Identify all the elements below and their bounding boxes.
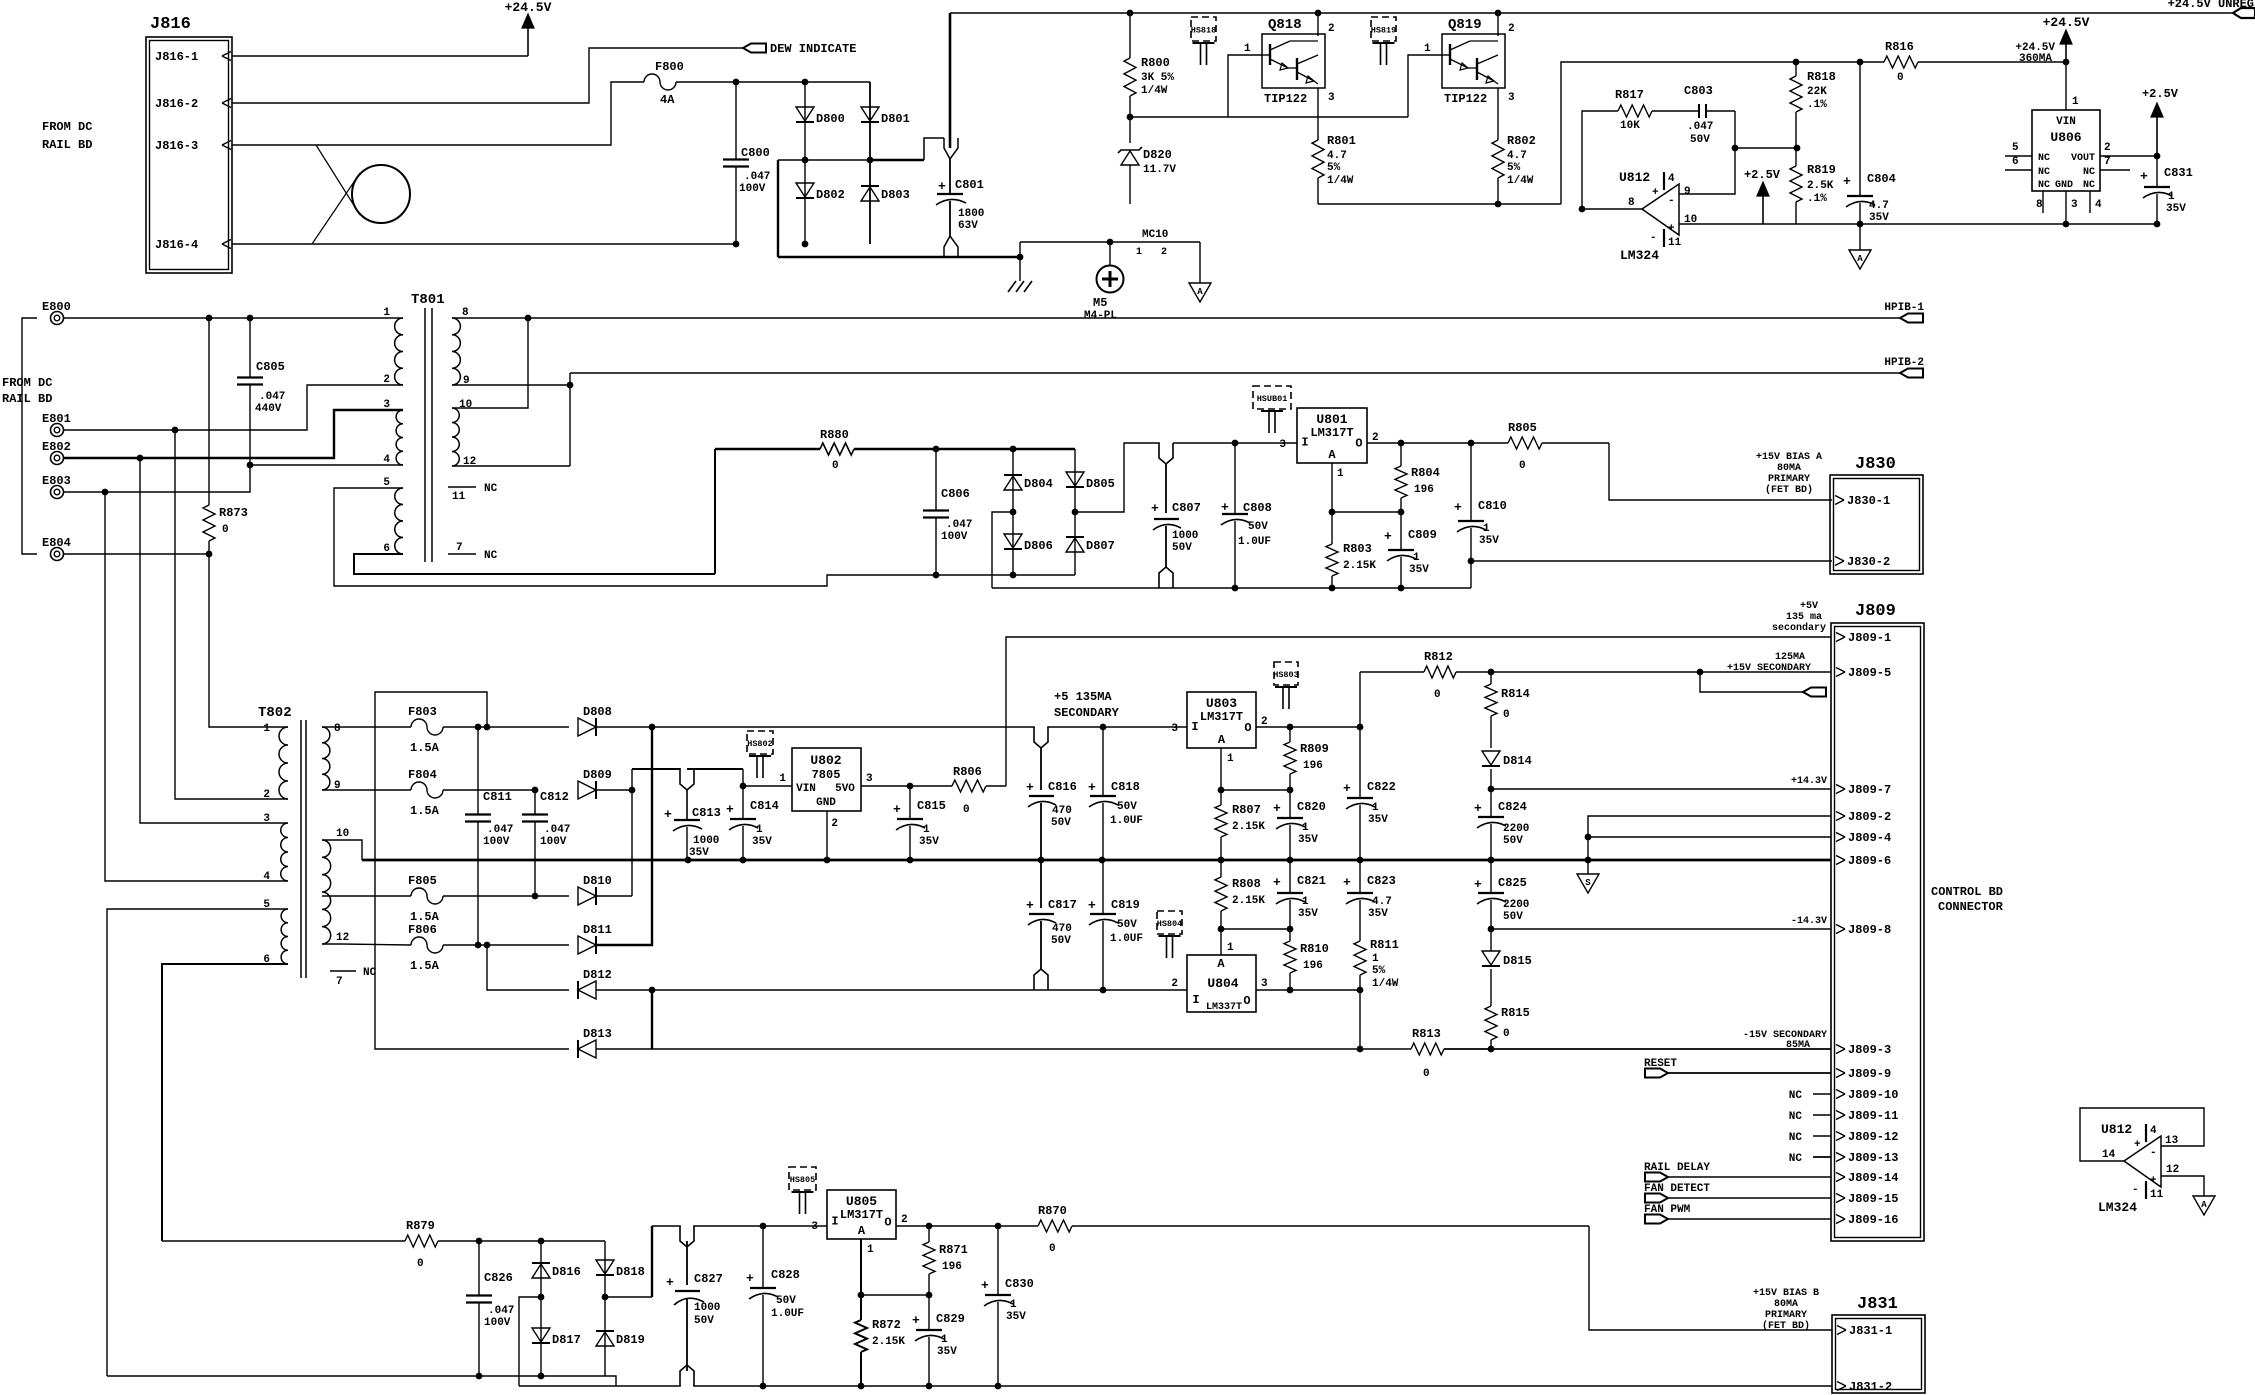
svg-text:0: 0	[417, 1258, 424, 1270]
wire E801 net to T802 pin 2	[175, 430, 288, 799]
svg-text:-15V SECONDARY: -15V SECONDARY	[1743, 1030, 1827, 1041]
svg-text:7: 7	[456, 542, 463, 554]
svg-text:1000: 1000	[1172, 530, 1198, 542]
capacitor C812 .047 100V	[534, 790, 536, 815]
svg-text:I: I	[831, 1215, 838, 1229]
svg-text:C801: C801	[955, 178, 984, 192]
svg-text:+: +	[938, 179, 946, 194]
svg-text:R879: R879	[406, 1219, 435, 1233]
diode D800	[804, 82, 806, 160]
resistor R808 2.15K	[1220, 860, 1222, 877]
capacitor C813 1000 35V	[681, 767, 693, 771]
resistor R814 0	[1490, 672, 1492, 684]
regulator U803 LM317T	[1187, 692, 1256, 748]
svg-text:1: 1	[1413, 552, 1420, 564]
svg-text:1: 1	[1302, 896, 1309, 908]
svg-text:J809-3: J809-3	[1848, 1043, 1891, 1057]
wire T802 pin 5 down	[107, 909, 288, 1376]
svg-text:F806: F806	[408, 923, 437, 937]
svg-text:2200: 2200	[1503, 899, 1529, 911]
diode D818	[604, 1241, 606, 1297]
svg-text:.047: .047	[946, 519, 972, 531]
svg-text:1800: 1800	[958, 208, 984, 220]
svg-text:+: +	[2150, 1175, 2157, 1187]
svg-text:7805: 7805	[812, 768, 841, 782]
svg-text:1.5A: 1.5A	[410, 910, 440, 924]
capacitor C808 50V 1.0UF	[1234, 443, 1236, 514]
svg-text:0: 0	[222, 524, 229, 536]
svg-text:D811: D811	[583, 923, 612, 937]
svg-text:+: +	[664, 807, 672, 822]
svg-text:+: +	[1652, 187, 1659, 199]
regulator U801 LM317T	[1297, 408, 1367, 463]
wire +14.3V to J809-7	[1488, 786, 1495, 793]
svg-text:HS803: HS803	[1273, 670, 1299, 680]
wire U804 output	[1256, 989, 1360, 991]
chassis ground	[1019, 257, 1021, 281]
wire T801 pin 8 to HPIB-1	[452, 317, 1900, 319]
wire R870 to J831-1	[1589, 1226, 1832, 1330]
resistor R802 4.7 5% 1/4W	[1497, 88, 1499, 140]
svg-text:11: 11	[1668, 237, 1682, 249]
svg-text:R818: R818	[1807, 70, 1836, 84]
svg-text:35V: 35V	[1298, 908, 1318, 920]
wire T802 pin 6 down	[162, 964, 288, 1241]
bottom return rail B2 to J831-2	[519, 1385, 1832, 1387]
svg-text:+24.5V: +24.5V	[505, 0, 552, 15]
capacitor C803 .047 50V	[1698, 104, 1700, 118]
capacitor C831 1 35V	[2154, 221, 2161, 228]
svg-text:C828: C828	[771, 1268, 800, 1282]
wire J816-1 to +24.5V	[232, 55, 528, 57]
svg-text:GND: GND	[2055, 180, 2073, 191]
terminal E804	[51, 548, 64, 561]
svg-text:F804: F804	[408, 768, 437, 782]
heatsink HS804	[1157, 911, 1182, 934]
svg-text:0: 0	[1503, 709, 1510, 721]
wire T801 pin 10	[452, 318, 528, 408]
svg-text:J809-1: J809-1	[1848, 631, 1891, 645]
svg-text:C815: C815	[917, 799, 946, 813]
resistor R819 2.5K .1%	[1795, 148, 1797, 166]
svg-text:14: 14	[2102, 1149, 2116, 1161]
svg-text:VIN: VIN	[796, 783, 816, 795]
svg-text:4.7: 4.7	[1869, 200, 1889, 212]
resistor R816 0	[1796, 61, 1884, 63]
wire bridge minus to ground rail	[992, 512, 1013, 588]
svg-text:1000: 1000	[694, 1302, 720, 1314]
svg-text:R873: R873	[219, 506, 248, 520]
transistor Q819 TIP122	[1442, 34, 1505, 88]
svg-text:4.7: 4.7	[1507, 150, 1527, 162]
svg-text:100V: 100V	[483, 836, 510, 848]
svg-text:D801: D801	[881, 112, 910, 126]
svg-text:C813: C813	[692, 806, 721, 820]
svg-text:A: A	[858, 1224, 866, 1238]
svg-text:I: I	[1192, 993, 1199, 1007]
svg-text:D803: D803	[881, 188, 910, 202]
svg-text:.047: .047	[1687, 121, 1713, 133]
svg-text:F803: F803	[408, 705, 437, 719]
bridge top rail T801	[936, 448, 1075, 450]
svg-text:125MA: 125MA	[1775, 652, 1805, 663]
resistor R811 1 5% 1/4W	[1359, 929, 1361, 941]
svg-text:DEW INDICATE: DEW INDICATE	[770, 42, 856, 56]
svg-text:J809-2: J809-2	[1848, 810, 1891, 824]
wire base line Q818 Q819	[1130, 116, 1408, 118]
svg-text:470: 470	[1052, 923, 1072, 935]
heatsink HSUB01	[1253, 386, 1291, 409]
svg-text:3: 3	[1508, 92, 1515, 104]
svg-text:-14.3V: -14.3V	[1791, 916, 1827, 927]
diode D808	[487, 726, 569, 728]
resistor R870 0	[1038, 1220, 1072, 1232]
svg-text:R801: R801	[1327, 134, 1356, 148]
wire U803 output	[1256, 726, 1360, 728]
diode D813	[578, 1040, 596, 1058]
svg-text:J809-6: J809-6	[1848, 854, 1891, 868]
resistor R800 3K	[1129, 13, 1131, 58]
capacitor C822 1 35V	[1359, 727, 1361, 798]
svg-text:10: 10	[459, 399, 472, 411]
svg-text:+14.3V: +14.3V	[1791, 776, 1827, 787]
svg-text:1.0UF: 1.0UF	[1238, 536, 1271, 548]
svg-text:1/4W: 1/4W	[1372, 978, 1399, 990]
svg-text:8: 8	[2036, 199, 2043, 211]
svg-text:+: +	[912, 1313, 920, 1328]
svg-text:+24.5V: +24.5V	[2043, 15, 2090, 30]
svg-text:1000: 1000	[693, 835, 719, 847]
svg-text:J809-15: J809-15	[1848, 1192, 1898, 1206]
svg-text:NC: NC	[1789, 1132, 1803, 1144]
svg-text:+: +	[893, 802, 901, 817]
svg-text:+: +	[666, 1275, 674, 1290]
svg-text:10K: 10K	[1620, 120, 1640, 132]
svg-text:J816-2: J816-2	[155, 97, 198, 111]
svg-text:R800: R800	[1141, 56, 1170, 70]
resistor R810 196	[1289, 929, 1291, 941]
svg-text:HSUB01: HSUB01	[1257, 394, 1288, 404]
svg-text:D817: D817	[552, 1333, 581, 1347]
power +2.5V (U806)	[2156, 115, 2158, 156]
fuse F804 1.5A	[322, 789, 411, 791]
svg-text:+15V BIAS B: +15V BIAS B	[1753, 1288, 1819, 1299]
wire E801 to T801 pin 2	[63, 385, 403, 430]
svg-text:J809-16: J809-16	[1848, 1213, 1898, 1227]
svg-text:2: 2	[383, 374, 390, 386]
svg-text:+: +	[1026, 780, 1034, 795]
svg-text:J809: J809	[1855, 602, 1896, 621]
svg-text:R806: R806	[953, 765, 982, 779]
U802 ground pin	[826, 811, 828, 860]
svg-text:NC: NC	[2038, 180, 2050, 191]
svg-text:5: 5	[383, 477, 390, 489]
capacitor C820 1 35V	[1289, 790, 1291, 818]
wire pin6 net to R879	[162, 1240, 405, 1242]
svg-text:I: I	[1301, 436, 1308, 450]
svg-text:50V: 50V	[1503, 835, 1523, 847]
resistor R804 196	[1400, 443, 1402, 466]
wire bridge mid to C801 return	[778, 159, 805, 161]
svg-text:PRIMARY: PRIMARY	[1765, 1310, 1807, 1321]
svg-text:U803: U803	[1206, 696, 1237, 711]
lower rail (negative)	[652, 989, 1187, 991]
svg-text:196: 196	[1303, 960, 1323, 972]
wire E803 to T801 pin 4	[63, 465, 250, 492]
svg-text:13: 13	[2165, 1135, 2179, 1147]
bridge mid junctions	[1010, 509, 1017, 516]
svg-text:FROM DC: FROM DC	[2, 376, 52, 390]
svg-text:LM317T: LM317T	[1310, 426, 1353, 440]
wire J809-4	[1588, 836, 1831, 838]
diode D809	[578, 781, 596, 799]
diode D803	[869, 160, 871, 244]
svg-text:4: 4	[383, 454, 390, 466]
svg-text:+: +	[1474, 877, 1482, 892]
capacitor C811 .047 100V	[532, 787, 539, 794]
svg-text:4: 4	[2095, 199, 2102, 211]
svg-text:VIN: VIN	[2056, 116, 2076, 128]
svg-text:3: 3	[1261, 978, 1268, 990]
svg-text:HS818: HS818	[1191, 26, 1217, 36]
heatsink HS802	[747, 731, 773, 754]
svg-text:1/4W: 1/4W	[1507, 175, 1534, 187]
svg-text:C830: C830	[1005, 1277, 1034, 1291]
svg-text:50V: 50V	[1117, 919, 1137, 931]
svg-text:2: 2	[831, 818, 838, 830]
capacitor C800 .047 100V	[735, 82, 737, 160]
svg-text:63V: 63V	[958, 220, 978, 232]
wire T801 pin 9/12 to HPIB-2	[452, 384, 570, 386]
svg-text:A: A	[2201, 1200, 2207, 1210]
svg-text:135 ma: 135 ma	[1786, 612, 1822, 623]
svg-text:2.15K: 2.15K	[1232, 821, 1265, 833]
svg-text:A: A	[1857, 254, 1863, 264]
svg-text:+24.5V UNREG: +24.5V UNREG	[2168, 0, 2254, 11]
resistor R879 0	[405, 1235, 438, 1247]
svg-text:11.7V: 11.7V	[1143, 164, 1176, 176]
heatsink HS805	[789, 1167, 816, 1190]
svg-text:1.0UF: 1.0UF	[1110, 933, 1143, 945]
diode D802	[804, 160, 806, 244]
svg-text:S: S	[1585, 878, 1591, 888]
T801 pin 11 NC	[448, 486, 476, 488]
svg-text:D804: D804	[1024, 477, 1053, 491]
svg-text:+: +	[1343, 781, 1351, 796]
svg-text:-: -	[1650, 232, 1657, 244]
svg-text:C823: C823	[1367, 874, 1396, 888]
wire C803 to divider junction	[1735, 111, 1797, 148]
svg-text:C824: C824	[1498, 800, 1527, 814]
screw M5 M4-PL	[1109, 242, 1111, 265]
flag +24.5V UNREG	[2233, 8, 2255, 18]
svg-text:0: 0	[1503, 1028, 1510, 1040]
svg-text:1.5A: 1.5A	[410, 741, 440, 755]
wire +24.5V unreg rail	[950, 12, 2233, 14]
svg-text:1: 1	[1372, 802, 1379, 814]
stub flag J809-5	[1700, 672, 1803, 692]
svg-text:5: 5	[2012, 142, 2019, 154]
svg-text:3: 3	[1279, 439, 1286, 451]
wire E804 net to T802 pin 1	[209, 554, 288, 727]
svg-text:7: 7	[336, 976, 343, 988]
svg-text:C821: C821	[1297, 874, 1326, 888]
svg-text:NC: NC	[2038, 153, 2050, 164]
wire -14.3V to J809-8	[1488, 926, 1495, 933]
svg-text:C807: C807	[1172, 501, 1201, 515]
wire J816-3 to F800	[232, 82, 644, 145]
svg-text:470: 470	[1052, 805, 1072, 817]
svg-text:R872: R872	[872, 1318, 901, 1332]
svg-text:J809-5: J809-5	[1848, 666, 1891, 680]
svg-text:3: 3	[383, 399, 390, 411]
svg-text:NC: NC	[1789, 1153, 1803, 1165]
svg-text:Q818: Q818	[1268, 17, 1302, 33]
svg-text:(FET BD): (FET BD)	[1765, 484, 1813, 496]
svg-text:D812: D812	[583, 968, 612, 982]
svg-text:D808: D808	[583, 705, 612, 719]
svg-text:50V: 50V	[1503, 911, 1523, 923]
flag HPIB-2	[1900, 369, 1923, 378]
wire R806 to J809-1 (+5V)	[1006, 637, 1831, 786]
svg-text:6: 6	[2012, 156, 2019, 168]
svg-text:1.5A: 1.5A	[410, 959, 440, 973]
svg-text:T802: T802	[258, 705, 292, 721]
diode D806	[1012, 512, 1014, 575]
wire junction to opamp pin 9	[1679, 148, 1735, 194]
svg-text:C811: C811	[483, 790, 512, 804]
capacitor C804 4.7 35V	[1859, 62, 1861, 196]
regulator U802 7805	[792, 748, 861, 811]
diode D812	[578, 981, 596, 999]
capacitor C827 1000 50V	[681, 1224, 693, 1228]
fuse F805 1.5A	[322, 895, 411, 897]
wire rectifier minus vertical	[649, 987, 656, 994]
regulator U806	[2065, 62, 2067, 110]
svg-text:50V: 50V	[776, 1295, 796, 1307]
svg-text:C812: C812	[540, 790, 569, 804]
heatsink HS819	[1371, 17, 1396, 41]
svg-text:J809-9: J809-9	[1848, 1067, 1891, 1081]
svg-text:R819: R819	[1807, 163, 1836, 177]
svg-text:0: 0	[1897, 72, 1904, 84]
svg-text:35V: 35V	[919, 836, 939, 848]
svg-text:R815: R815	[1501, 1006, 1530, 1020]
svg-text:R808: R808	[1232, 877, 1261, 891]
ground A (U812B)	[2193, 1196, 2215, 1215]
svg-text:0: 0	[1434, 689, 1441, 701]
svg-text:4A: 4A	[660, 93, 675, 107]
diode D805	[1074, 449, 1076, 512]
svg-text:RAIL BD: RAIL BD	[2, 392, 52, 406]
svg-text:J816-1: J816-1	[155, 50, 198, 64]
svg-text:C822: C822	[1367, 780, 1396, 794]
svg-text:D815: D815	[1503, 954, 1532, 968]
svg-text:9: 9	[1684, 186, 1691, 198]
U804 adj pin	[1220, 929, 1222, 955]
bridge mid rail to +24.5V unreg	[805, 159, 870, 161]
T801 pin 7 NC	[448, 553, 476, 555]
svg-text:R880: R880	[820, 428, 849, 442]
svg-text:HS819: HS819	[1371, 26, 1397, 36]
svg-text:R813: R813	[1412, 1027, 1441, 1041]
svg-text:4.7: 4.7	[1372, 896, 1392, 908]
svg-text:J830: J830	[1855, 455, 1896, 474]
svg-text:7: 7	[2104, 156, 2111, 168]
svg-text:TIP122: TIP122	[1264, 92, 1307, 106]
svg-text:C818: C818	[1111, 780, 1140, 794]
svg-text:C805: C805	[256, 360, 285, 374]
svg-text:U801: U801	[1316, 412, 1347, 427]
wire U812B feedback loop	[2080, 1108, 2204, 1161]
svg-text:Q819: Q819	[1448, 17, 1482, 33]
svg-text:R807: R807	[1232, 803, 1261, 817]
svg-text:secondary: secondary	[1772, 622, 1826, 634]
svg-text:+2.5V: +2.5V	[1744, 168, 1781, 182]
svg-text:NC: NC	[2083, 167, 2095, 178]
svg-text:+: +	[1088, 780, 1096, 795]
svg-text:M5: M5	[1093, 296, 1107, 310]
regulator U805 LM317T	[827, 1190, 896, 1239]
svg-text:22K: 22K	[1807, 86, 1827, 98]
svg-text:+: +	[1221, 500, 1229, 515]
svg-text:R814: R814	[1501, 687, 1530, 701]
svg-text:J809-10: J809-10	[1848, 1088, 1898, 1102]
svg-text:+: +	[2134, 1139, 2141, 1151]
zener diode D820 11.7V	[1127, 114, 1134, 121]
resistor R815 0	[1485, 1006, 1497, 1040]
svg-text:1: 1	[1424, 43, 1431, 55]
svg-text:J816-4: J816-4	[155, 238, 198, 252]
svg-text:11: 11	[452, 491, 466, 503]
svg-text:+: +	[1273, 875, 1281, 890]
svg-text:C803: C803	[1684, 84, 1713, 98]
opamp U812 section A LM324	[1642, 184, 1679, 235]
svg-text:+: +	[1343, 875, 1351, 890]
svg-text:1: 1	[2072, 96, 2079, 108]
wire C810 to J830-2	[1470, 561, 1472, 588]
svg-text:C817: C817	[1048, 898, 1077, 912]
wire U805 output to R870	[896, 1225, 1038, 1227]
svg-text:35V: 35V	[1479, 535, 1499, 547]
svg-text:2: 2	[901, 1214, 908, 1226]
rectifier loop wire F803 to D813	[375, 692, 569, 1049]
svg-text:196: 196	[1414, 484, 1434, 496]
svg-text:C810: C810	[1478, 499, 1507, 513]
svg-text:MC10: MC10	[1142, 229, 1168, 241]
svg-text:GND: GND	[816, 797, 836, 809]
svg-text:0: 0	[1423, 1068, 1430, 1080]
adj tie U801	[1332, 511, 1401, 513]
svg-text:2.15K: 2.15K	[872, 1336, 905, 1348]
wire opamp output to R817	[1582, 208, 1642, 210]
svg-text:A: A	[1218, 733, 1226, 747]
svg-text:J809-8: J809-8	[1848, 923, 1891, 937]
svg-text:1: 1	[1136, 247, 1142, 258]
capacitor C810 1 35V	[1470, 443, 1472, 521]
svg-text:8: 8	[462, 307, 469, 319]
svg-text:360MA: 360MA	[2019, 53, 2052, 65]
svg-text:J830-1: J830-1	[1847, 494, 1890, 508]
svg-text:U804: U804	[1207, 976, 1238, 991]
svg-text:50V: 50V	[1117, 801, 1137, 813]
svg-text:+: +	[1026, 898, 1034, 913]
capacitor C828 50V 1.0UF	[762, 1226, 764, 1288]
svg-text:E802: E802	[42, 440, 71, 454]
capacitor C801 1800 63V	[924, 138, 944, 160]
svg-text:1: 1	[923, 824, 930, 836]
svg-text:C825: C825	[1498, 876, 1527, 890]
